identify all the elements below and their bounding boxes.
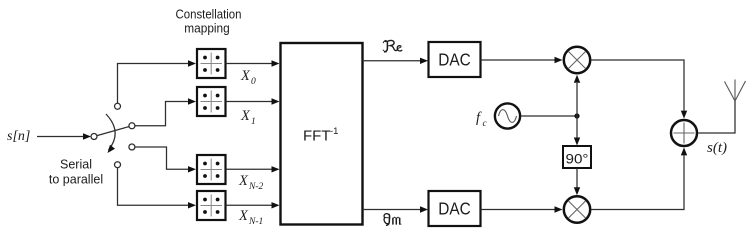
switch output contact 2 [129,123,135,129]
constellation mapper M4 [197,191,226,220]
wire: junction up into mixer1 [574,75,580,116]
svg-text:f: f [476,110,482,126]
wire: contact 3 to mapper M3 [135,147,196,173]
antenna [725,80,746,102]
wire: M2 to FFT [226,98,280,104]
svg-text:DAC: DAC [438,50,471,70]
switch rotation arc arrow [106,114,115,153]
svg-text:X: X [238,173,249,189]
svg-text:Serial: Serial [60,158,92,172]
label Im (fraktur) [384,214,401,226]
wire: oscillator to junction [521,115,577,117]
constellation mapper M3 [197,155,226,184]
wire: junction down into 90 deg block [574,116,580,146]
switch output contact 1 [115,103,121,109]
switch output contact 3 [129,144,135,150]
svg-text:1: 1 [251,117,256,127]
switch input contact circle [91,134,97,140]
block U1: inverse FFT [281,43,363,225]
wire: M1 to FFT [226,60,280,66]
oscillator fc (carrier source) [495,103,520,128]
block: 90 degree phase shifter [563,146,591,168]
svg-text:90°: 90° [566,151,589,167]
block DAC1 [429,42,481,77]
svg-text:N-1: N-1 [248,217,263,227]
adder (summer) [671,120,697,146]
svg-text:FFT: FFT [303,128,331,145]
mixer2 (multiplier) [564,196,590,222]
switch output contact 4 [115,162,121,168]
svg-text:s[n]: s[n] [7,129,30,144]
wire: mixer1 output to adder top [591,60,687,119]
svg-text:DAC: DAC [438,199,471,219]
svg-text:X: X [240,108,251,124]
wire: input arrow into switch [37,133,91,139]
label X0 [240,68,256,87]
label: Constellation mapping title [176,8,242,36]
switch wiper arm [97,127,129,136]
label XN-1 [238,208,263,227]
junction node dot [574,113,579,118]
svg-text:0: 0 [251,77,256,87]
label X1 [240,108,256,127]
constellation mapper M1 [197,49,226,78]
svg-text:-1: -1 [330,126,338,137]
svg-text:c: c [483,119,488,129]
wire: 90 deg block down into mixer2 [574,168,580,195]
wire: M4 to FFT [226,202,280,208]
block DAC2 [429,191,481,226]
label Re (fraktur) [383,40,402,52]
svg-text:Constellation: Constellation [176,8,242,22]
label XN-2 [238,173,264,192]
label fc [476,110,488,129]
label: Serial to parallel [49,158,103,187]
svg-text:X: X [238,208,249,224]
svg-text:mapping: mapping [184,22,230,36]
constellation mapper M2 [197,87,226,116]
wire: mixer2 output to adder bottom [591,147,687,209]
svg-text:s(t): s(t) [707,140,727,156]
wire: contact 4 to mapper M4 [118,168,197,209]
wire: DAC2 to mixer2 [481,206,563,212]
wire: adder output to antenna [698,101,735,133]
svg-text:to parallel: to parallel [49,173,103,187]
wire: contact 2 to mapper M2 [135,98,196,126]
wire: FFT Im output to DAC2 [363,206,429,212]
wire: M3 to FFT [226,166,280,172]
wire: DAC1 to mixer1 [481,57,563,63]
svg-text:N-2: N-2 [248,182,264,192]
mixer1 (multiplier) [564,47,590,73]
wire: contact 1 to mapper M1 [118,60,197,103]
svg-text:X: X [240,68,251,84]
wire: FFT Re output to DAC1 [363,58,429,64]
